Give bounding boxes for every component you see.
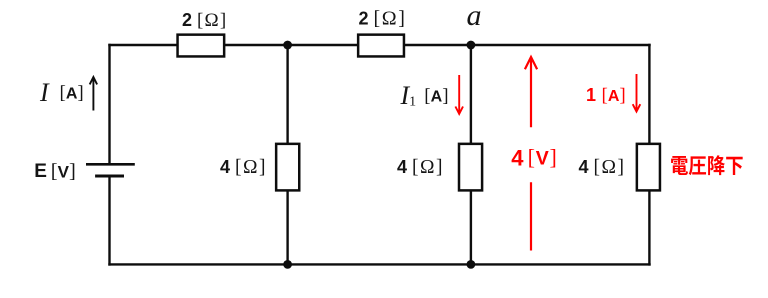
svg-text:4 [Ω]: 4 [Ω] — [579, 157, 626, 178]
current arrow I (black, up) — [90, 77, 97, 111]
node a junction dot — [467, 41, 476, 50]
wire bottom horizontal — [108, 263, 650, 265]
svg-text:4 [Ω]: 4 [Ω] — [397, 157, 444, 178]
svg-text:[A]: [A] — [424, 86, 448, 107]
svg-text:E: E — [34, 161, 47, 182]
label denatsu-kouka (voltage drop, red kanji) — [671, 155, 743, 175]
resistor 2ohm right (box) — [358, 35, 404, 57]
wire branch 2 vertical — [470, 45, 472, 264]
current arrow I1 (red, down) — [455, 75, 463, 114]
node junction dot bottom-right — [467, 260, 476, 269]
resistor 4ohm branch1 (box) — [276, 144, 299, 191]
resistor 4ohm branch2 (box) — [459, 144, 482, 191]
wire branch 1 vertical — [286, 45, 288, 264]
wire top horizontal — [108, 44, 650, 46]
battery E long plate — [86, 163, 135, 166]
node junction dot top-left — [283, 41, 292, 50]
svg-text:[A]: [A] — [602, 85, 626, 106]
voltage arrow 4V lower segment (red) — [530, 182, 532, 250]
svg-text:4: 4 — [511, 145, 524, 170]
wire right vertical — [648, 44, 650, 266]
resistor 2ohm left (box) — [178, 35, 225, 57]
svg-text:[V]: [V] — [528, 145, 558, 170]
svg-text:4 [Ω]: 4 [Ω] — [220, 157, 267, 178]
svg-text:[A]: [A] — [60, 83, 84, 104]
svg-text:[V]: [V] — [51, 160, 76, 182]
current arrow 1A (red, down) — [633, 74, 641, 112]
svg-text:2 [Ω]: 2 [Ω] — [182, 10, 227, 31]
wire left vertical upper (to battery) — [108, 44, 110, 163]
svg-text:a: a — [467, 0, 482, 32]
wire left vertical lower (battery to bottom) — [108, 176, 110, 266]
resistor 4ohm right (box) — [637, 144, 660, 191]
svg-text:1: 1 — [586, 85, 596, 105]
svg-text:I: I — [39, 78, 50, 107]
voltage arrow 4V upper segment (red, up) — [525, 57, 537, 127]
svg-text:2 [Ω]: 2 [Ω] — [359, 7, 407, 29]
battery E short plate — [95, 175, 124, 178]
node junction dot bottom-left — [283, 260, 292, 269]
